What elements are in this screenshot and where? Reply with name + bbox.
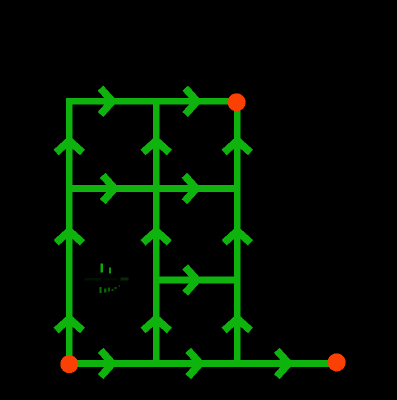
arrow right, top row right edge (185, 88, 197, 114)
wire top horizontal (66, 98, 241, 105)
arrow up, middle column row1 (143, 141, 169, 153)
arrow right, bottom row left edge (101, 350, 113, 376)
arrow right, top row left edge (101, 88, 113, 114)
wire right vertical (234, 101, 241, 363)
arrow up, left column row3 (56, 319, 82, 331)
arrow right, second row right edge (184, 175, 196, 201)
arrow up, right column row2 (224, 231, 250, 243)
arrow up, right column row1 (224, 141, 250, 153)
wire left vertical (66, 98, 73, 364)
wire bottom horizontal (69, 360, 336, 367)
arrow right, third row edge (185, 267, 197, 293)
wire third horizontal (right half only) (153, 277, 241, 284)
faint scribble annotation (85, 264, 129, 294)
arrow right, second row left edge (103, 175, 115, 201)
arrow right, bottom row middle edge (188, 350, 200, 376)
arrow up, left column row2 (56, 231, 82, 243)
arrow up, right column row3 (224, 319, 250, 331)
arrow up, middle column row3 (143, 319, 169, 331)
arrow up, middle column row2 (143, 231, 169, 243)
wire middle vertical (153, 101, 160, 363)
wire second horizontal (66, 185, 241, 192)
arrow right, bottom row long edge (277, 350, 289, 376)
node bottom-left (red dot) (60, 355, 78, 373)
arrow up, left column row1 (56, 141, 82, 153)
node top-right (red dot) (228, 93, 246, 111)
node bottom-right (red dot) (328, 353, 346, 371)
